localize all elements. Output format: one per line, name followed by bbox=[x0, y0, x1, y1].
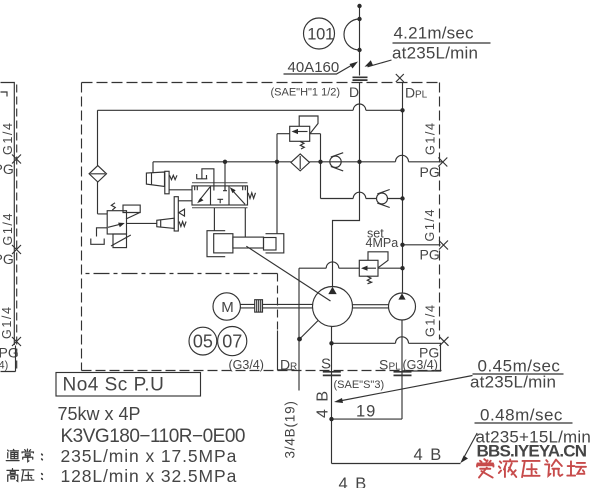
svg-text:S: S bbox=[379, 357, 388, 373]
svg-text:4.21m/sec: 4.21m/sec bbox=[394, 23, 475, 42]
svg-text:(G3/4): (G3/4) bbox=[229, 358, 264, 372]
svg-text:R: R bbox=[290, 362, 297, 373]
svg-text:D: D bbox=[280, 357, 290, 373]
svg-text:4): 4) bbox=[0, 360, 8, 372]
svg-text:4 B: 4 B bbox=[414, 446, 443, 464]
svg-text:PL: PL bbox=[389, 362, 402, 373]
svg-text:07: 07 bbox=[222, 332, 242, 352]
svg-text:4 B: 4 B bbox=[339, 475, 368, 488]
svg-text:G1/4: G1/4 bbox=[0, 306, 14, 340]
svg-text:G1/4: G1/4 bbox=[423, 208, 437, 242]
svg-text:0.48m/sec: 0.48m/sec bbox=[480, 405, 563, 424]
svg-text:PG: PG bbox=[420, 247, 440, 263]
svg-text:G1/4: G1/4 bbox=[1, 212, 15, 246]
svg-text:BBS.IYEYA.CN: BBS.IYEYA.CN bbox=[477, 442, 587, 461]
svg-text:(G3/4): (G3/4) bbox=[403, 358, 438, 372]
svg-text:K3VG180−110R−0E00: K3VG180−110R−0E00 bbox=[61, 426, 245, 447]
svg-text:PL: PL bbox=[415, 90, 428, 101]
svg-text:05: 05 bbox=[193, 332, 213, 352]
svg-text:G1/4: G1/4 bbox=[424, 304, 438, 338]
svg-text:(SAE"H"1 1/2): (SAE"H"1 1/2) bbox=[271, 87, 341, 99]
svg-text:D: D bbox=[349, 84, 359, 100]
svg-text:128L/min x 32.5MPa: 128L/min x 32.5MPa bbox=[61, 466, 238, 486]
svg-text:PG: PG bbox=[0, 161, 14, 177]
svg-text:M: M bbox=[221, 299, 234, 316]
svg-text:4 B: 4 B bbox=[315, 389, 332, 418]
svg-text:75kw x 4P: 75kw x 4P bbox=[58, 404, 141, 424]
svg-text:G1/4: G1/4 bbox=[1, 122, 15, 156]
svg-text:at235L/min: at235L/min bbox=[470, 372, 556, 391]
svg-text:D: D bbox=[405, 85, 415, 101]
svg-text:19: 19 bbox=[356, 403, 376, 421]
svg-text:PG: PG bbox=[0, 251, 14, 267]
svg-text:4MPa: 4MPa bbox=[366, 236, 399, 250]
svg-text:3/4B(19): 3/4B(19) bbox=[283, 400, 298, 458]
svg-text:235L/min x 17.5MPa: 235L/min x 17.5MPa bbox=[61, 446, 238, 466]
svg-text:at235L/min: at235L/min bbox=[392, 43, 478, 62]
svg-text:No4 Sc P.U: No4 Sc P.U bbox=[63, 375, 165, 396]
svg-text:PG: PG bbox=[420, 164, 440, 180]
svg-text:101: 101 bbox=[307, 25, 334, 43]
svg-text:G1/4: G1/4 bbox=[424, 122, 438, 156]
svg-text:(SAE"S"3): (SAE"S"3) bbox=[334, 379, 385, 391]
svg-text:S: S bbox=[321, 356, 331, 373]
